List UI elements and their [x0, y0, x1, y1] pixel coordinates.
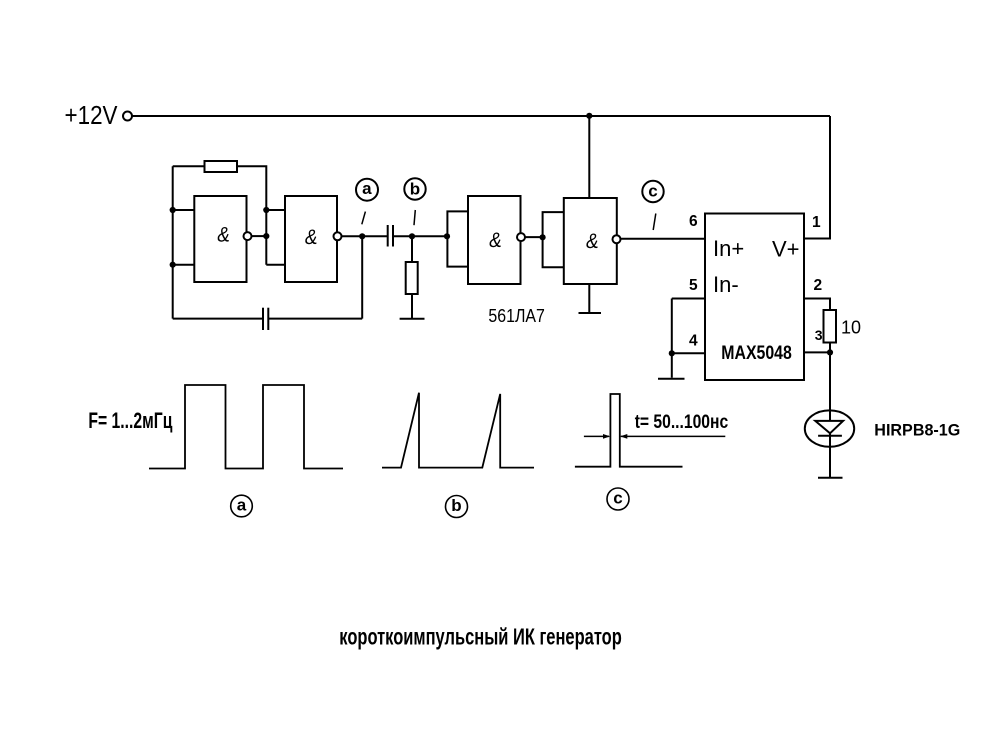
svg-text:V+: V+ — [772, 237, 800, 262]
junction: rail to gate U1.1 input A — [170, 207, 176, 213]
wire: gate U1.1 input A — [173, 209, 195, 211]
junction: node a — [359, 233, 365, 239]
wire: pin 5 — [672, 298, 705, 300]
NAND gate U1.4 — [564, 198, 617, 284]
junction: U1.3 input — [444, 233, 450, 239]
svg-text:3: 3 — [815, 327, 823, 343]
wire: pin3 node down to LED and ground — [829, 352, 831, 477]
dimension arrow left — [584, 435, 609, 437]
gate U1.2 output bubble — [334, 232, 342, 240]
gate U1.1 output bubble — [244, 232, 252, 240]
wire: left rail of multivibrator — [172, 166, 174, 318]
+12V supply terminal — [123, 112, 132, 121]
wire: node b drop to R2 — [411, 236, 413, 262]
gate U1.2 & — [303, 226, 319, 249]
svg-text:c: c — [613, 489, 622, 508]
svg-text:In+: In+ — [713, 236, 744, 261]
LED D1 cathode bar — [818, 435, 842, 437]
wire: gate U1.2 input A — [266, 209, 285, 211]
svg-text:F= 1...2мГц: F= 1...2мГц — [88, 408, 172, 433]
junction: node b — [409, 233, 415, 239]
ground (LED) — [818, 477, 843, 479]
wire: U1.4 bottom to ground — [588, 284, 590, 313]
svg-text:4: 4 — [689, 333, 698, 350]
svg-text:b: b — [410, 180, 420, 199]
IC U2 MAX5048 body — [705, 214, 804, 381]
waveform c: narrow pulse — [575, 394, 683, 467]
ground (R2) — [400, 318, 425, 320]
svg-text:HIRPB8-1G: HIRPB8-1G — [874, 421, 960, 440]
junction: rail to gate U1.1 input B — [170, 262, 176, 268]
svg-text:561ЛА7: 561ЛА7 — [488, 306, 545, 326]
svg-text:b: b — [451, 496, 461, 515]
wire: C2 to node b to gate U1.3 input — [393, 235, 447, 237]
wire: U1.4 output to IC pin 6 — [621, 238, 706, 240]
capacitor C2 — [387, 225, 389, 247]
NAND gate U1.1 — [194, 196, 246, 282]
wire: right drop to pin 1 — [804, 116, 830, 239]
gate U1.3 output bubble — [517, 233, 525, 241]
wire: bottom feedback left of C1 — [173, 318, 263, 320]
wire: U1.3 out to U1.4 in — [525, 236, 543, 238]
wire: pin5 to pin4 link — [671, 299, 673, 378]
svg-text:1: 1 — [812, 214, 821, 231]
capacitor C1 — [262, 308, 264, 330]
svg-text:6: 6 — [689, 213, 698, 230]
waveform a label circle — [231, 495, 253, 517]
LED D1 circle — [805, 410, 854, 446]
node a label circle — [356, 179, 378, 201]
svg-text:a: a — [362, 179, 372, 198]
svg-text:MAX5048: MAX5048 — [721, 343, 792, 364]
gate U1.4 input bracket — [543, 212, 564, 267]
wire: gate U1.2 input B — [266, 264, 285, 266]
svg-text:короткоимпульсный ИК генерато: короткоимпульсный ИК генератор — [339, 624, 622, 650]
wire: pin 4 — [672, 352, 705, 354]
ground (U1.4) — [579, 312, 602, 314]
dimension arrow right — [621, 435, 726, 437]
ground (pins 4,5) — [658, 378, 685, 380]
waveform b: sawtooth — [382, 393, 534, 468]
svg-text:a: a — [237, 496, 247, 515]
junction: pin 3 node — [827, 349, 833, 355]
wire: R3 bottom to pin3 node — [829, 343, 831, 353]
junction: top rail to U1.4 — [586, 113, 592, 119]
junction: pin4/5 ground link — [669, 350, 675, 356]
wire: drop to gate U1.4 top — [588, 116, 590, 198]
resistor R1 — [205, 161, 238, 172]
gate U1.1 & — [216, 223, 232, 246]
svg-text:2: 2 — [814, 277, 823, 294]
node c tick — [653, 214, 656, 231]
svg-text:c: c — [648, 182, 657, 201]
NAND gate U1.2 — [285, 196, 337, 282]
wire: node a drop — [361, 236, 363, 318]
wire: U1.2 output to node a — [342, 235, 363, 237]
svg-text:+12V: +12V — [65, 100, 119, 130]
gate U1.4 & — [585, 230, 601, 253]
wire: +12V top rail — [132, 115, 830, 117]
wire: top feedback link right — [237, 166, 266, 264]
gate U1.3 input bracket — [447, 211, 468, 266]
node b label circle — [404, 178, 425, 199]
wire: gate U1.1 input B — [173, 264, 195, 266]
junction: U1.1 output node — [263, 233, 269, 239]
node b tick — [414, 210, 415, 225]
svg-text:10: 10 — [841, 318, 861, 338]
resistor R3 10 — [824, 310, 837, 343]
wire: pin 2 — [804, 299, 830, 311]
junction: U1.4 input — [540, 234, 546, 240]
wire: pin 3 — [804, 351, 830, 353]
wire: top feedback link left — [173, 165, 205, 167]
wire: R2 to ground — [411, 294, 413, 318]
svg-text:t= 50...100нс: t= 50...100нс — [635, 412, 729, 433]
wire: node a to C2 — [362, 235, 388, 237]
node c label circle — [642, 181, 663, 202]
node a tick — [362, 212, 366, 225]
waveform b label circle — [446, 496, 468, 518]
resistor R2 — [406, 262, 418, 294]
svg-text:In-: In- — [713, 272, 739, 297]
waveform c label circle — [607, 488, 629, 510]
NAND gate U1.3 — [468, 196, 521, 284]
gate U1.4 output bubble — [613, 235, 621, 243]
gate U1.3 & — [488, 229, 504, 252]
wire: bottom feedback right of C1 — [268, 318, 362, 320]
waveform a: square wave — [149, 385, 343, 469]
svg-text:5: 5 — [689, 277, 698, 294]
junction: feedback vertical at gate U1.2 input A — [263, 207, 269, 213]
wire: U1.1 output to feedback node — [252, 235, 267, 237]
LED D1 triangle — [815, 421, 843, 433]
